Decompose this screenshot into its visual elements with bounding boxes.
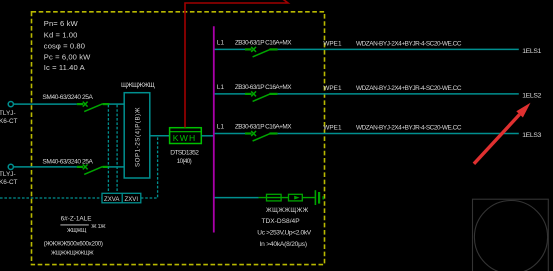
branch 2 outgoing cable: [278, 93, 519, 95]
branch 3 wire from busbar: [215, 133, 245, 135]
svg-text:SM40-63/3240 25A: SM40-63/3240 25A: [42, 158, 93, 165]
svg-text:ZB30-63/1P C16A+MX: ZB30-63/1P C16A+MX: [235, 39, 292, 46]
svg-text:6#-Z-1ALE: 6#-Z-1ALE: [61, 215, 92, 222]
SPD branch wire green: [259, 197, 315, 199]
svg-text:1ELS2: 1ELS2: [522, 92, 541, 99]
svg-text:Ic = 11.40 A: Ic = 11.40 A: [44, 63, 86, 72]
svg-text:Pc = 6,00 kW: Pc = 6,00 kW: [44, 53, 91, 62]
svg-text:WDZAN-BYJ-2X4+BYJR-4-SC20-WE.C: WDZAN-BYJ-2X4+BYJR-4-SC20-WE.CC: [356, 41, 462, 48]
svg-text:Kd = 1.00: Kd = 1.00: [44, 30, 78, 39]
svg-text:SM40-63/3240 25A: SM40-63/3240 25A: [42, 94, 93, 101]
svg-text:SOP1-2S(4)P(B)Ж: SOP1-2S(4)P(B)Ж: [135, 107, 142, 167]
svg-text:WDZAN-BYJ-2X4+BYJR-4-SC20-WE.C: WDZAN-BYJ-2X4+BYJR-4-SC20-WE.CC: [356, 85, 462, 92]
svg-text:K6-CT: K6-CT: [0, 118, 18, 125]
source terminal node 1: [8, 102, 13, 107]
svg-text:In >40kA(8/20μs): In >40kA(8/20μs): [260, 241, 307, 248]
wire incoming 1: [14, 103, 77, 105]
meter pulse leader line: [185, 0, 288, 128]
branch 2 wire from busbar: [215, 93, 245, 95]
svg-text:10(40): 10(40): [177, 158, 192, 165]
svg-text:ЖЩЖЖЩЖЖ: ЖЩЖЖЩЖЖ: [266, 207, 309, 214]
svg-text:L1: L1: [217, 39, 225, 46]
wire breaker1 to ATS: [110, 103, 125, 105]
pointer arrow annotation: [474, 103, 531, 164]
metering dashed tap V: [107, 105, 109, 193]
breaker QF1 SM40-63/3240 25A: [77, 102, 110, 112]
branch 3 breaker ZB30-63/1P C16A+MX: [245, 131, 278, 141]
metering dashed tap I: [116, 105, 118, 193]
breaker QF2 SM40-63/3240 25A: [77, 164, 110, 174]
title block square: [473, 199, 549, 271]
node 1 label TLYJ-K6-CT: [0, 110, 18, 125]
svg-text:WPE1: WPE1: [323, 41, 342, 48]
svg-text:1ELS3: 1ELS3: [522, 132, 541, 139]
svg-text:WDZAN-BYJ-2X4+BYJR-4-SC20-WE.C: WDZAN-BYJ-2X4+BYJR-4-SC20-WE.CC: [356, 125, 462, 132]
branch 1 breaker ZB30-63/1P C16A+MX: [245, 47, 278, 57]
node 2 label TLYJ-K6-CT: [0, 171, 18, 186]
branch 2 breaker ZB30-63/1P C16A+MX: [245, 91, 278, 101]
branch 1 outgoing cable: [278, 48, 519, 50]
title block circle: [474, 201, 547, 271]
branch 3 outgoing cable: [278, 133, 519, 135]
svg-text:1ELS1: 1ELS1: [522, 48, 541, 55]
svg-text:ZB30-63/1P C16A+MX: ZB30-63/1P C16A+MX: [235, 124, 292, 131]
load parameter labels: [44, 19, 91, 72]
svg-text:TLYJ-: TLYJ-: [0, 110, 16, 117]
svg-text:ZXVA: ZXVA: [104, 196, 120, 203]
svg-text:WPE1: WPE1: [323, 125, 342, 132]
svg-text:ЖЩЖЖЩЖЖЩЖ: ЖЩЖЖЩЖЖЩЖ: [51, 250, 95, 256]
svg-text:TLYJ-: TLYJ-: [0, 171, 16, 178]
source terminal node 2: [8, 164, 13, 169]
svg-text:ЖЩЖЩ: ЖЩЖЩ: [67, 228, 87, 234]
svg-text:ZB30-63/1P C16A+MX: ZB30-63/1P C16A+MX: [235, 84, 292, 91]
SPD arrester element F2: [289, 194, 303, 201]
wire incoming 2: [14, 166, 77, 168]
metering dashed line right: [141, 137, 158, 198]
svg-text:L1: L1: [217, 124, 225, 131]
SPD branch wire from busbar: [215, 197, 259, 199]
svg-text:cosφ = 0.80: cosφ = 0.80: [44, 41, 85, 50]
svg-text:Pn= 6 kW: Pn= 6 kW: [44, 19, 79, 28]
kWh meter P1: [170, 128, 202, 144]
branch 1 wire from busbar: [215, 48, 245, 50]
ground symbol: [315, 190, 323, 205]
svg-text:L1: L1: [217, 84, 225, 91]
svg-text:WPE1: WPE1: [323, 85, 342, 92]
svg-text:KWH: KWH: [173, 133, 197, 143]
svg-text:DTSD1352: DTSD1352: [170, 150, 199, 157]
svg-text:K6-CT: K6-CT: [0, 179, 18, 186]
SPD fuse element F1: [267, 194, 282, 201]
svg-text:Uc >253V,Up<2.0kV: Uc >253V,Up<2.0kV: [257, 230, 312, 237]
svg-text:Ж 1Ж: Ж 1Ж: [91, 224, 106, 230]
ATS dual-power transfer switch U1: [124, 93, 150, 178]
svg-text:(ЖЖЖЖ500x600x200): (ЖЖЖЖ500x600x200): [44, 240, 103, 247]
wire ATS to kWh meter: [150, 135, 170, 137]
busbar L1: [213, 26, 215, 232]
svg-text:ЩЖЩЖЖЩ: ЩЖЩЖЖЩ: [121, 82, 155, 89]
panel enclosure dashed boundary: [32, 12, 325, 265]
svg-text:ZXVI: ZXVI: [125, 196, 139, 203]
svg-text:TDX-DS8/4P: TDX-DS8/4P: [262, 218, 301, 225]
wire breaker2 to ATS: [110, 166, 125, 168]
wire meter to busbar: [201, 135, 214, 137]
meter module ZXVA ZXVI: [102, 193, 141, 203]
metering dashed line left: [0, 197, 102, 199]
